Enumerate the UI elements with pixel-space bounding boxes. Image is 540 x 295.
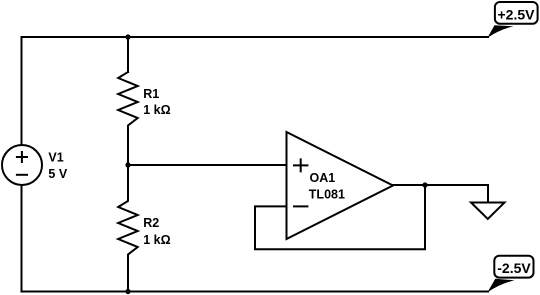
svg-text:V1: V1 [48, 151, 63, 165]
svg-text:R2: R2 [143, 216, 159, 230]
svg-text:1 kΩ: 1 kΩ [143, 103, 170, 117]
svg-text:TL081: TL081 [309, 188, 345, 202]
svg-text:R1: R1 [143, 87, 159, 101]
svg-text:-2.5V: -2.5V [497, 260, 531, 276]
svg-text:OA1: OA1 [310, 171, 336, 185]
svg-text:5 V: 5 V [48, 167, 67, 181]
svg-text:+2.5V: +2.5V [498, 6, 536, 22]
svg-text:1 kΩ: 1 kΩ [143, 233, 170, 247]
